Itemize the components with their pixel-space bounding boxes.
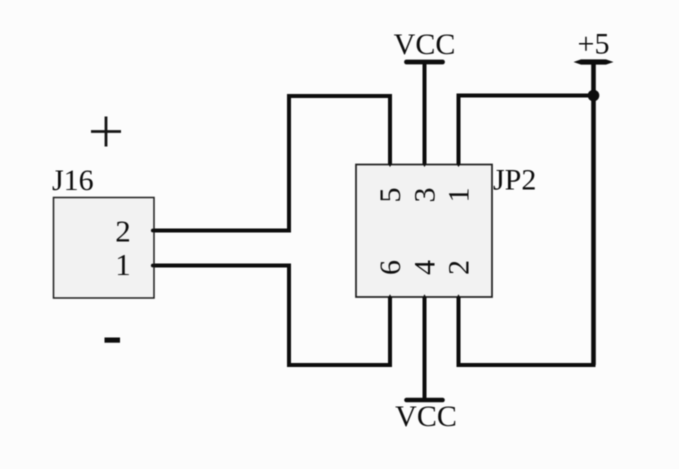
J16 pin 1 tip [151,264,155,268]
JP2 pin 6 tip [388,294,392,298]
JP2 pin 4 tip [422,294,426,298]
svg-text:+5: +5 [578,28,610,61]
wire: J16 pin 1 to JP2 pin 6 (left lower loop) [154,266,390,366]
JP2 pin 3 tip [423,164,427,167]
polarity mark + (plus) [91,117,121,147]
svg-text:5: 5 [374,188,407,203]
JP2 pin number 3 [409,188,442,203]
power symbol VCC bottom: bar [407,398,443,403]
svg-text:2: 2 [115,214,131,249]
svg-text:VCC: VCC [394,28,456,61]
J16 pin number 2 [115,214,131,249]
svg-text:4: 4 [409,260,442,275]
JP2 pin 5 tip [388,164,392,167]
svg-text:JP2: JP2 [493,164,536,197]
J16 pin 2 tip [151,229,155,233]
polarity mark - (minus) [105,338,121,343]
wire: JP2 pin 4 to VCC bottom [423,296,427,400]
power symbol VCC top: bar [407,60,443,65]
power symbol +5: bar with pointed ends [574,59,614,64]
JP2 pin 1 tip [457,164,461,167]
power symbol +5: label [578,28,610,61]
svg-text:1: 1 [115,247,131,282]
svg-text:3: 3 [409,188,442,203]
svg-text:1: 1 [443,188,476,203]
svg-text:VCC: VCC [395,400,457,433]
JP2 pin number 6 [374,260,407,275]
JP2 pin number 2 [443,260,476,275]
label JP2 [493,164,536,197]
JP2 pin number 5 [374,188,407,203]
wire: J16 pin 2 to JP2 pin 5 (left upper loop) [154,96,390,231]
wire: VCC top to JP2 pin 3 [423,62,427,165]
svg-text:6: 6 [374,260,407,275]
wire: right bottom to JP2 pin 2 [459,296,596,365]
jumper JP2 body [356,165,492,298]
wire: +5 vertical down right side [591,62,596,365]
label J16 [52,164,94,197]
node: junction dot on +5 net [588,90,600,102]
JP2 pin number 1 [443,188,476,203]
power symbol VCC top: label [394,28,456,61]
connector J16 body [54,198,155,299]
JP2 pin 2 tip [456,294,460,298]
svg-text:J16: J16 [52,164,94,197]
svg-text:2: 2 [443,260,476,275]
J16 pin number 1 [115,247,131,282]
power symbol VCC bottom: label [395,400,457,433]
wire: JP2 pin 1 up and right to +5 net [459,96,594,166]
JP2 pin number 4 [409,260,442,275]
